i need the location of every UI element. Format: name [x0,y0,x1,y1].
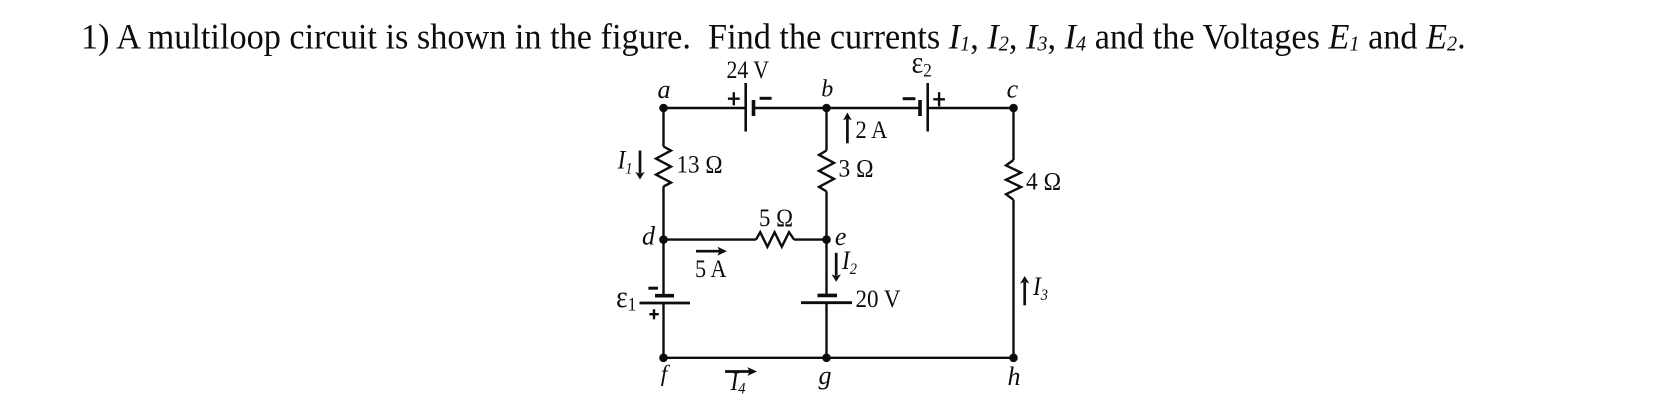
node b [822,104,831,113]
minus sign of 24V battery [760,97,772,100]
current arrow I4 (right) [725,367,757,376]
svg-text:I3: I3 [1032,273,1048,304]
wire a to resistor 13ohm [662,108,664,147]
plus sign of 24V battery [728,92,740,105]
current arrow 2A (up) [843,113,852,144]
svg-text:24 V: 24 V [727,57,770,84]
svg-text:13 Ω: 13 Ω [677,152,723,179]
node g [822,354,831,363]
wire d to eps1 battery [662,240,664,295]
battery eps1 long plate (+) [640,302,691,305]
current arrow I2 (down) [832,253,841,282]
svg-text:I2: I2 [841,247,857,278]
svg-text:a: a [658,75,671,104]
wire resistor 5ohm to e [794,238,826,240]
wire 20V battery to g [825,303,827,358]
svg-text:20 V: 20 V [856,286,901,313]
wire 24V battery to b [755,107,827,109]
battery 20V short plate (-) [818,294,838,298]
node d [659,235,668,244]
plus sign of eps2 battery [933,92,945,106]
svg-text:5 Ω: 5 Ω [759,205,793,232]
wire resistor 13ohm to d [662,186,664,239]
node f [659,354,668,363]
svg-text:h: h [1008,362,1021,391]
battery 24V long plate (+) [744,83,747,132]
wire f to g [664,357,827,359]
resistor 3 ohm [819,151,834,192]
current arrow I1 (down) [635,151,644,180]
battery eps1 short plate (-) [655,294,674,298]
svg-text:2 A: 2 A [856,117,888,144]
svg-text:ε2: ε2 [912,46,932,81]
minus sign of eps1 battery [648,287,658,290]
resistor 13 ohm [656,147,671,187]
wire b to eps2 battery [827,107,919,109]
wire b to resistor 3ohm [825,108,827,151]
battery eps2 short plate (-) [918,100,922,116]
wire resistor 4ohm to h [1012,200,1014,358]
node e [822,235,831,244]
svg-text:ε1: ε1 [616,281,636,315]
svg-text:b: b [821,76,833,102]
svg-text:5 A: 5 A [695,256,727,283]
node a [659,104,668,113]
node h [1009,354,1018,363]
wire g to h [827,357,1014,359]
node c [1009,104,1018,113]
wire eps1 battery to f [662,303,664,358]
resistor 4 ohm [1006,160,1021,200]
current arrow I3 (up) [1020,276,1029,305]
wire d to resistor 5ohm [664,238,757,240]
svg-text:3 Ω: 3 Ω [839,156,874,183]
wire e to 20V battery [825,240,827,294]
wire a to 24V battery [664,107,745,109]
battery 24V short plate (-) [752,100,756,116]
wire resistor 3ohm to e [825,191,827,239]
battery eps2 long plate (+) [926,83,929,132]
current arrow 5A (right) [696,247,727,256]
battery 20V long plate (+) [801,301,852,304]
svg-text:4 Ω: 4 Ω [1026,169,1061,196]
svg-text:d: d [642,222,656,251]
resistor 5 ohm [756,232,794,247]
wire c to resistor 4ohm [1012,108,1014,160]
svg-text:c: c [1007,75,1019,104]
svg-text:I1: I1 [617,146,633,177]
plus sign of eps1 battery [649,309,658,319]
minus sign of eps2 battery [903,97,916,100]
svg-text:g: g [819,361,832,390]
wire eps2 battery to c [928,107,1014,109]
svg-text:f: f [661,361,671,387]
